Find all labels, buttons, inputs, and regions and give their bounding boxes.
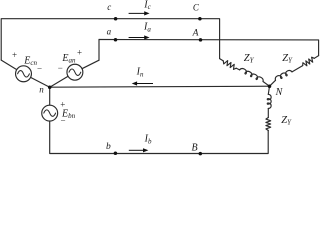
svg-text:N: N — [275, 87, 284, 98]
svg-text:−: − — [37, 64, 42, 74]
svg-text:B: B — [192, 143, 198, 154]
svg-text:A: A — [192, 29, 199, 39]
svg-text:−: − — [58, 63, 63, 73]
svg-text:−: − — [61, 116, 66, 126]
svg-text:b: b — [106, 142, 111, 152]
svg-text:a: a — [107, 26, 112, 36]
svg-text:+: + — [12, 50, 17, 60]
svg-text:c: c — [107, 2, 111, 12]
svg-text:+: + — [77, 48, 82, 58]
svg-text:C: C — [193, 2, 200, 12]
svg-text:+: + — [60, 99, 65, 109]
svg-text:n: n — [39, 85, 44, 95]
